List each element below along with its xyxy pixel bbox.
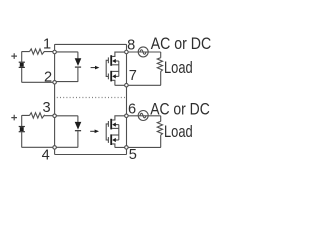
MOSFET Q4 body line xyxy=(116,139,119,141)
node pin 2 xyxy=(53,81,57,85)
svg-text:1: 1 xyxy=(43,37,51,53)
load resistor ch1 xyxy=(157,58,162,72)
battery DC source ch1 xyxy=(19,62,25,63)
MOSFET Q1 body line xyxy=(116,60,119,62)
svg-text:AC or DC: AC or DC xyxy=(150,99,210,118)
MOSFET Q2 source stub xyxy=(112,70,119,72)
LED D1 cathode bar xyxy=(75,67,81,68)
MOSFET common source vertical ch1 xyxy=(118,61,120,76)
load loop right edge top ch2 xyxy=(160,116,162,122)
node pin 7 xyxy=(125,83,128,87)
svg-text:4: 4 xyxy=(42,148,50,164)
wire LED2 anode xyxy=(56,116,78,122)
package outline left edge pin2-pin3 xyxy=(54,84,56,114)
MOSFET common source vertical ch2 xyxy=(118,125,120,140)
wire pin8 to load loop ch1 xyxy=(128,51,161,53)
MOSFET Q2 channel bar xyxy=(110,71,112,82)
svg-text:8: 8 xyxy=(127,38,135,54)
light arrow ch1 xyxy=(91,67,96,68)
AC source circle ch2 xyxy=(138,111,148,121)
package outline right edge pin6-pin5 xyxy=(126,118,128,146)
load resistor ch2 xyxy=(157,121,162,135)
svg-text:Load: Load xyxy=(164,58,193,77)
MOSFET Q2 gate electrode xyxy=(107,74,109,80)
AC source circle ch1 xyxy=(138,47,148,57)
AC source sine ch1 xyxy=(140,50,146,55)
MOSFET Q1 drain wire to pin8 xyxy=(112,52,125,56)
MOSFET pair gate bracket ch1 xyxy=(106,60,108,76)
wire input bottom channel2 xyxy=(22,132,54,147)
MOSFET Q3 source stub xyxy=(112,127,119,129)
node pin 3 xyxy=(53,114,57,118)
svg-text:2: 2 xyxy=(44,69,52,85)
wire LED2 cathode xyxy=(56,131,78,147)
load loop bottom ch2 xyxy=(128,135,161,147)
plus sign ch2 xyxy=(11,115,17,121)
AC source sine ch2 xyxy=(140,113,146,118)
MOSFET Q2 drain wire to pin7 xyxy=(112,80,125,85)
svg-text:Load: Load xyxy=(164,122,193,141)
LED D2 cathode bar xyxy=(75,130,81,131)
node pin 8 xyxy=(125,50,128,54)
resistor R1 (input current limit, ch1) xyxy=(30,49,54,54)
wire LED1 anode xyxy=(56,52,78,59)
MOSFET Q1 source stub xyxy=(112,64,119,66)
node pin 6 xyxy=(125,114,128,118)
package outline right edge pin8-pin7 xyxy=(126,54,128,84)
wire input top channel2 xyxy=(22,115,30,126)
wire pin6 to load loop ch2 xyxy=(128,115,161,117)
load loop right edge top ch1 xyxy=(160,52,162,58)
package outline right edge pin7-pin6 xyxy=(126,87,128,114)
MOSFET Q4 source stub xyxy=(112,134,119,136)
svg-text:7: 7 xyxy=(129,68,137,84)
svg-text:6: 6 xyxy=(128,102,136,118)
package outline bottom edge xyxy=(55,149,127,155)
load loop bottom ch1 xyxy=(128,71,161,85)
battery DC source ch2 xyxy=(19,126,25,127)
wire input bottom channel1 xyxy=(22,68,53,82)
package outline top edge xyxy=(55,44,127,50)
MOSFET Q3 channel bar xyxy=(110,119,112,130)
node pin 1 xyxy=(53,50,57,54)
MOSFET Q3 gate electrode xyxy=(107,121,109,127)
svg-text:5: 5 xyxy=(129,147,137,163)
light arrow ch2 xyxy=(90,131,95,132)
dotted channel divider xyxy=(57,97,126,99)
package outline left edge pin1-pin2 xyxy=(54,54,56,81)
node pin 5 xyxy=(125,146,128,150)
package outline left edge pin3-pin4 xyxy=(54,118,56,146)
MOSFET Q1 gate electrode xyxy=(107,57,109,63)
LED D2 triangle xyxy=(75,122,82,130)
MOSFET Q4 channel bar xyxy=(110,134,112,145)
svg-text:AC or DC: AC or DC xyxy=(151,34,212,53)
MOSFET Q3 body line xyxy=(116,124,119,126)
MOSFET Q3 drain wire to pin6 xyxy=(112,116,125,120)
LED D1 triangle xyxy=(75,58,82,66)
plus sign ch1 xyxy=(11,53,17,59)
MOSFET Q2 body arrow xyxy=(112,74,116,78)
MOSFET Q4 gate electrode xyxy=(107,137,109,143)
MOSFET Q4 body arrow xyxy=(112,138,116,142)
MOSFET Q4 drain wire to pin5 xyxy=(112,144,125,148)
MOSFET Q3 body arrow xyxy=(112,123,116,127)
svg-text:3: 3 xyxy=(42,100,50,116)
MOSFET Q2 body line xyxy=(116,75,119,77)
node pin 4 xyxy=(53,146,57,150)
MOSFET Q1 body arrow xyxy=(112,59,116,63)
MOSFET Q1 channel bar xyxy=(110,55,112,66)
wire input top channel1 xyxy=(22,52,30,62)
wire LED1 cathode xyxy=(56,68,78,82)
resistor R2 (input current limit, ch2) xyxy=(30,113,54,118)
MOSFET pair gate bracket ch2 xyxy=(106,124,108,140)
